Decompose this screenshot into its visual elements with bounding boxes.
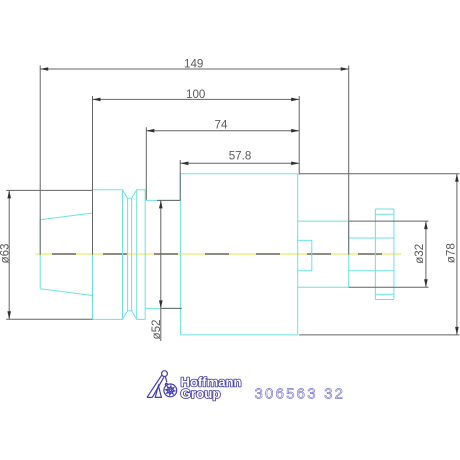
logo gear star [166, 386, 175, 395]
logo back outer line [147, 375, 162, 398]
arrow 149 right [341, 67, 349, 71]
extension line 149 right [348, 66, 350, 255]
arrow 100 right [291, 98, 299, 102]
dimension lines gray [6, 66, 459, 342]
cone left face [39, 220, 41, 289]
svg-text:149: 149 [184, 58, 203, 71]
flange left face [92, 190, 94, 320]
dim line dia32 [425, 221, 427, 287]
logo neck line [165, 377, 167, 383]
spigot bottom edge [349, 270, 394, 272]
logo head circle [162, 371, 168, 377]
logo back inner line [152, 377, 164, 397]
arrow dia32 bottom [424, 279, 428, 287]
arrow dia63 top [7, 190, 11, 198]
extension line 100 left [92, 96, 94, 255]
nut right face [393, 209, 395, 300]
logo gear ring [164, 384, 177, 397]
logo gear hole [169, 389, 171, 391]
logo small circle [165, 383, 167, 385]
arrow 74 left [146, 129, 154, 133]
nut left face [374, 209, 376, 300]
svg-text:ø32: ø32 [413, 244, 426, 264]
svg-text:74: 74 [215, 119, 228, 132]
arrow dia63 bottom [7, 311, 11, 319]
spigot top edge [349, 237, 394, 239]
extension line dia63 top [6, 189, 92, 191]
cone bottom taper [40, 289, 92, 296]
extension line dia78 top [299, 173, 459, 175]
Hoffmann Group wordmark [181, 375, 242, 401]
body top edge [180, 173, 297, 175]
mid section right face [348, 221, 350, 287]
extension line 149 left [39, 66, 41, 255]
dia52 edge overlap bottom [161, 307, 182, 309]
flange bottom edge [93, 311, 146, 320]
logo leg triangle [155, 386, 161, 398]
dim line 149 [40, 68, 349, 70]
svg-text:ø63: ø63 [0, 244, 12, 264]
dim line dia63 [8, 190, 10, 319]
extension line dia63 bottom [6, 318, 92, 320]
flange right face [144, 190, 146, 320]
arrow dia52 top [159, 200, 163, 208]
extension line dia78 bottom [299, 334, 459, 336]
body left face [179, 174, 181, 335]
arrow 74 right [291, 129, 299, 133]
arrow 100 left [93, 98, 101, 102]
svg-text:306563 32: 306563 32 [255, 386, 344, 403]
body bottom edge [180, 334, 297, 336]
nut bottom cap [375, 293, 394, 295]
arrow dia78 top [455, 174, 459, 182]
svg-text:ø78: ø78 [444, 243, 457, 263]
svg-text:100: 100 [186, 88, 205, 101]
Hoffmann Group logo icon [147, 371, 177, 398]
centerline yellow [35, 253, 401, 255]
cone top taper [40, 213, 92, 220]
svg-text:57.8: 57.8 [229, 149, 252, 162]
dim line dia52 [160, 200, 162, 341]
body right face [297, 174, 299, 335]
dim line dia78 [456, 174, 458, 335]
arrowheads [7, 67, 458, 335]
part outline cyan [40, 174, 394, 335]
arrow dia52 bottom [159, 300, 163, 308]
logo bottom edge [147, 396, 152, 398]
dim line 100 [93, 98, 300, 100]
coolant tube rectangle [298, 240, 312, 270]
arrow dia32 top [424, 221, 428, 229]
mid section bottom edge [298, 286, 349, 288]
svg-text:ø52: ø52 [150, 320, 163, 340]
arrow 57.8 right [291, 162, 299, 166]
extension line 74 left [145, 127, 147, 200]
dimension labels [0, 58, 457, 340]
extension line 57.8 left [179, 160, 181, 200]
arrow 149 left [40, 67, 48, 71]
mid section top edge [298, 220, 349, 222]
nut top cap [375, 208, 394, 210]
extension line dia32 top [349, 220, 429, 222]
dim line 57.8 [180, 162, 299, 164]
dia52 edge overlap top [157, 199, 180, 201]
centerline gray dashes [52, 253, 382, 255]
flange groove verticals [122, 190, 124, 320]
flange top edge [93, 190, 146, 199]
arrow 57.8 left [180, 162, 188, 166]
neck top edge [145, 199, 180, 201]
dim line 74 [146, 130, 299, 132]
neck bottom edge [145, 307, 180, 309]
extension line right shared [298, 96, 300, 175]
svg-text:Group: Group [181, 387, 221, 401]
arrow dia78 bottom [455, 327, 459, 335]
extension line dia32 bottom [349, 286, 429, 288]
